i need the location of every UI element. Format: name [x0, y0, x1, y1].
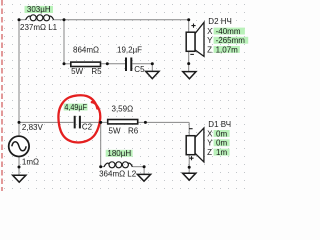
- svg-text:364mΩ L2: 364mΩ L2: [99, 169, 137, 178]
- node C2-R6 junction: [99, 121, 102, 124]
- D1 X coordinate label: [207, 129, 230, 138]
- ground below D2: [183, 72, 196, 79]
- wire C2 to R6: [81, 121, 107, 123]
- D2 X coordinate label: [207, 27, 245, 36]
- node D2 top corner: [187, 18, 190, 21]
- svg-text:Y: Y: [207, 36, 213, 45]
- wire node B to R5: [64, 63, 70, 65]
- svg-text:1,07m: 1,07m: [216, 45, 239, 54]
- svg-text:X: X: [207, 129, 213, 138]
- resistor R6: [108, 120, 138, 124]
- wire D2 top lead: [188, 20, 190, 33]
- wire R5 to C5: [101, 63, 125, 65]
- wire L2 ground stem: [143, 167, 145, 175]
- svg-text:Z: Z: [207, 45, 212, 54]
- D1 Z coordinate label: [207, 148, 230, 157]
- svg-text:Z: Z: [207, 148, 212, 157]
- wire source bottom lead: [18, 157, 20, 176]
- wire R6 to D1: [139, 121, 190, 123]
- node L1 left corner: [18, 18, 21, 21]
- svg-text:1m: 1m: [216, 148, 227, 157]
- D1 Y coordinate label: [207, 139, 230, 148]
- node R5 right pin: [106, 62, 109, 65]
- node L2 ground junction: [143, 165, 146, 168]
- L1 value label 303µH: [25, 5, 54, 14]
- svg-text:4,49µF: 4,49µF: [64, 103, 87, 112]
- svg-text:C2: C2: [82, 122, 93, 131]
- svg-text:-265mm: -265mm: [216, 36, 246, 45]
- wire top row L1 to D2: [53, 19, 188, 21]
- wire C5 ground stem: [151, 64, 153, 72]
- L2 value label 180µH: [106, 149, 133, 158]
- capacitor C2: [74, 116, 81, 129]
- svg-text:D1 ВЧ: D1 ВЧ: [208, 120, 231, 129]
- inductor L1: [26, 15, 54, 21]
- speaker D1: [186, 128, 204, 162]
- D2 minus terminal: [190, 53, 194, 55]
- svg-text:0m: 0m: [216, 139, 227, 148]
- ground below D1: [183, 173, 196, 180]
- C2 value label 4,49µF: [64, 103, 88, 112]
- svg-text:864mΩ: 864mΩ: [73, 45, 99, 54]
- wire D1 bottom lead to ground: [188, 155, 190, 174]
- ground right of L2: [137, 174, 150, 181]
- node D1 bottom junction: [188, 166, 191, 169]
- svg-text:Y: Y: [207, 139, 213, 148]
- node source top junction: [18, 121, 21, 124]
- svg-text:3,59Ω: 3,59Ω: [112, 105, 134, 114]
- D1 minus terminal: [189, 128, 193, 130]
- wire left column source to L1: [18, 20, 20, 136]
- node L2 left corner: [99, 165, 102, 168]
- node C5 ground junction: [151, 62, 154, 65]
- wire L2 branch vertical: [100, 122, 102, 166]
- svg-text:R6: R6: [128, 126, 139, 135]
- wire D2 bottom lead to ground: [188, 51, 190, 71]
- wire L2 right lead: [133, 166, 145, 168]
- ground below C5: [146, 71, 159, 78]
- ground below source: [13, 175, 26, 182]
- wire node B vertical: [63, 20, 65, 64]
- D1 plus terminal: [189, 156, 193, 160]
- svg-text:0m: 0m: [216, 129, 227, 138]
- svg-text:C5: C5: [134, 65, 145, 74]
- svg-text:D2 НЧ: D2 НЧ: [208, 17, 232, 26]
- svg-text:303µH: 303µH: [27, 5, 51, 14]
- speaker D2: [186, 22, 204, 56]
- svg-text:180µH: 180µH: [107, 149, 131, 158]
- svg-text:X: X: [207, 27, 213, 36]
- svg-text:5W: 5W: [109, 126, 121, 135]
- svg-text:19,2µF: 19,2µF: [117, 45, 142, 54]
- node R6 right pin: [144, 121, 147, 124]
- voltage source V1: [9, 136, 29, 156]
- D2 plus terminal: [191, 24, 195, 28]
- svg-text:237mΩ L1: 237mΩ L1: [20, 23, 58, 32]
- svg-text:1mΩ: 1mΩ: [22, 158, 39, 167]
- wire D1 top lead: [188, 122, 190, 135]
- node B top junction: [63, 18, 66, 21]
- capacitor C5: [125, 58, 132, 72]
- node D2 bottom junction: [187, 62, 190, 65]
- svg-text:2,83V: 2,83V: [22, 123, 44, 132]
- svg-text:R5: R5: [91, 67, 102, 76]
- wire top row L1 lead left: [19, 19, 26, 21]
- wire C5 to ground node: [132, 63, 152, 65]
- resistor R5: [71, 62, 101, 66]
- D2 Z coordinate label: [207, 45, 240, 54]
- wire mid row source to C2: [19, 121, 74, 123]
- annotation red ellipse around C2: [58, 95, 100, 142]
- wire L2 left lead: [101, 166, 105, 168]
- svg-text:5W: 5W: [71, 67, 83, 76]
- D2 Y coordinate label: [207, 36, 248, 45]
- svg-text:-40mm: -40mm: [216, 27, 241, 36]
- inductor L2: [104, 162, 132, 168]
- node R5 left pin: [63, 62, 66, 65]
- node source bottom pin: [18, 166, 21, 169]
